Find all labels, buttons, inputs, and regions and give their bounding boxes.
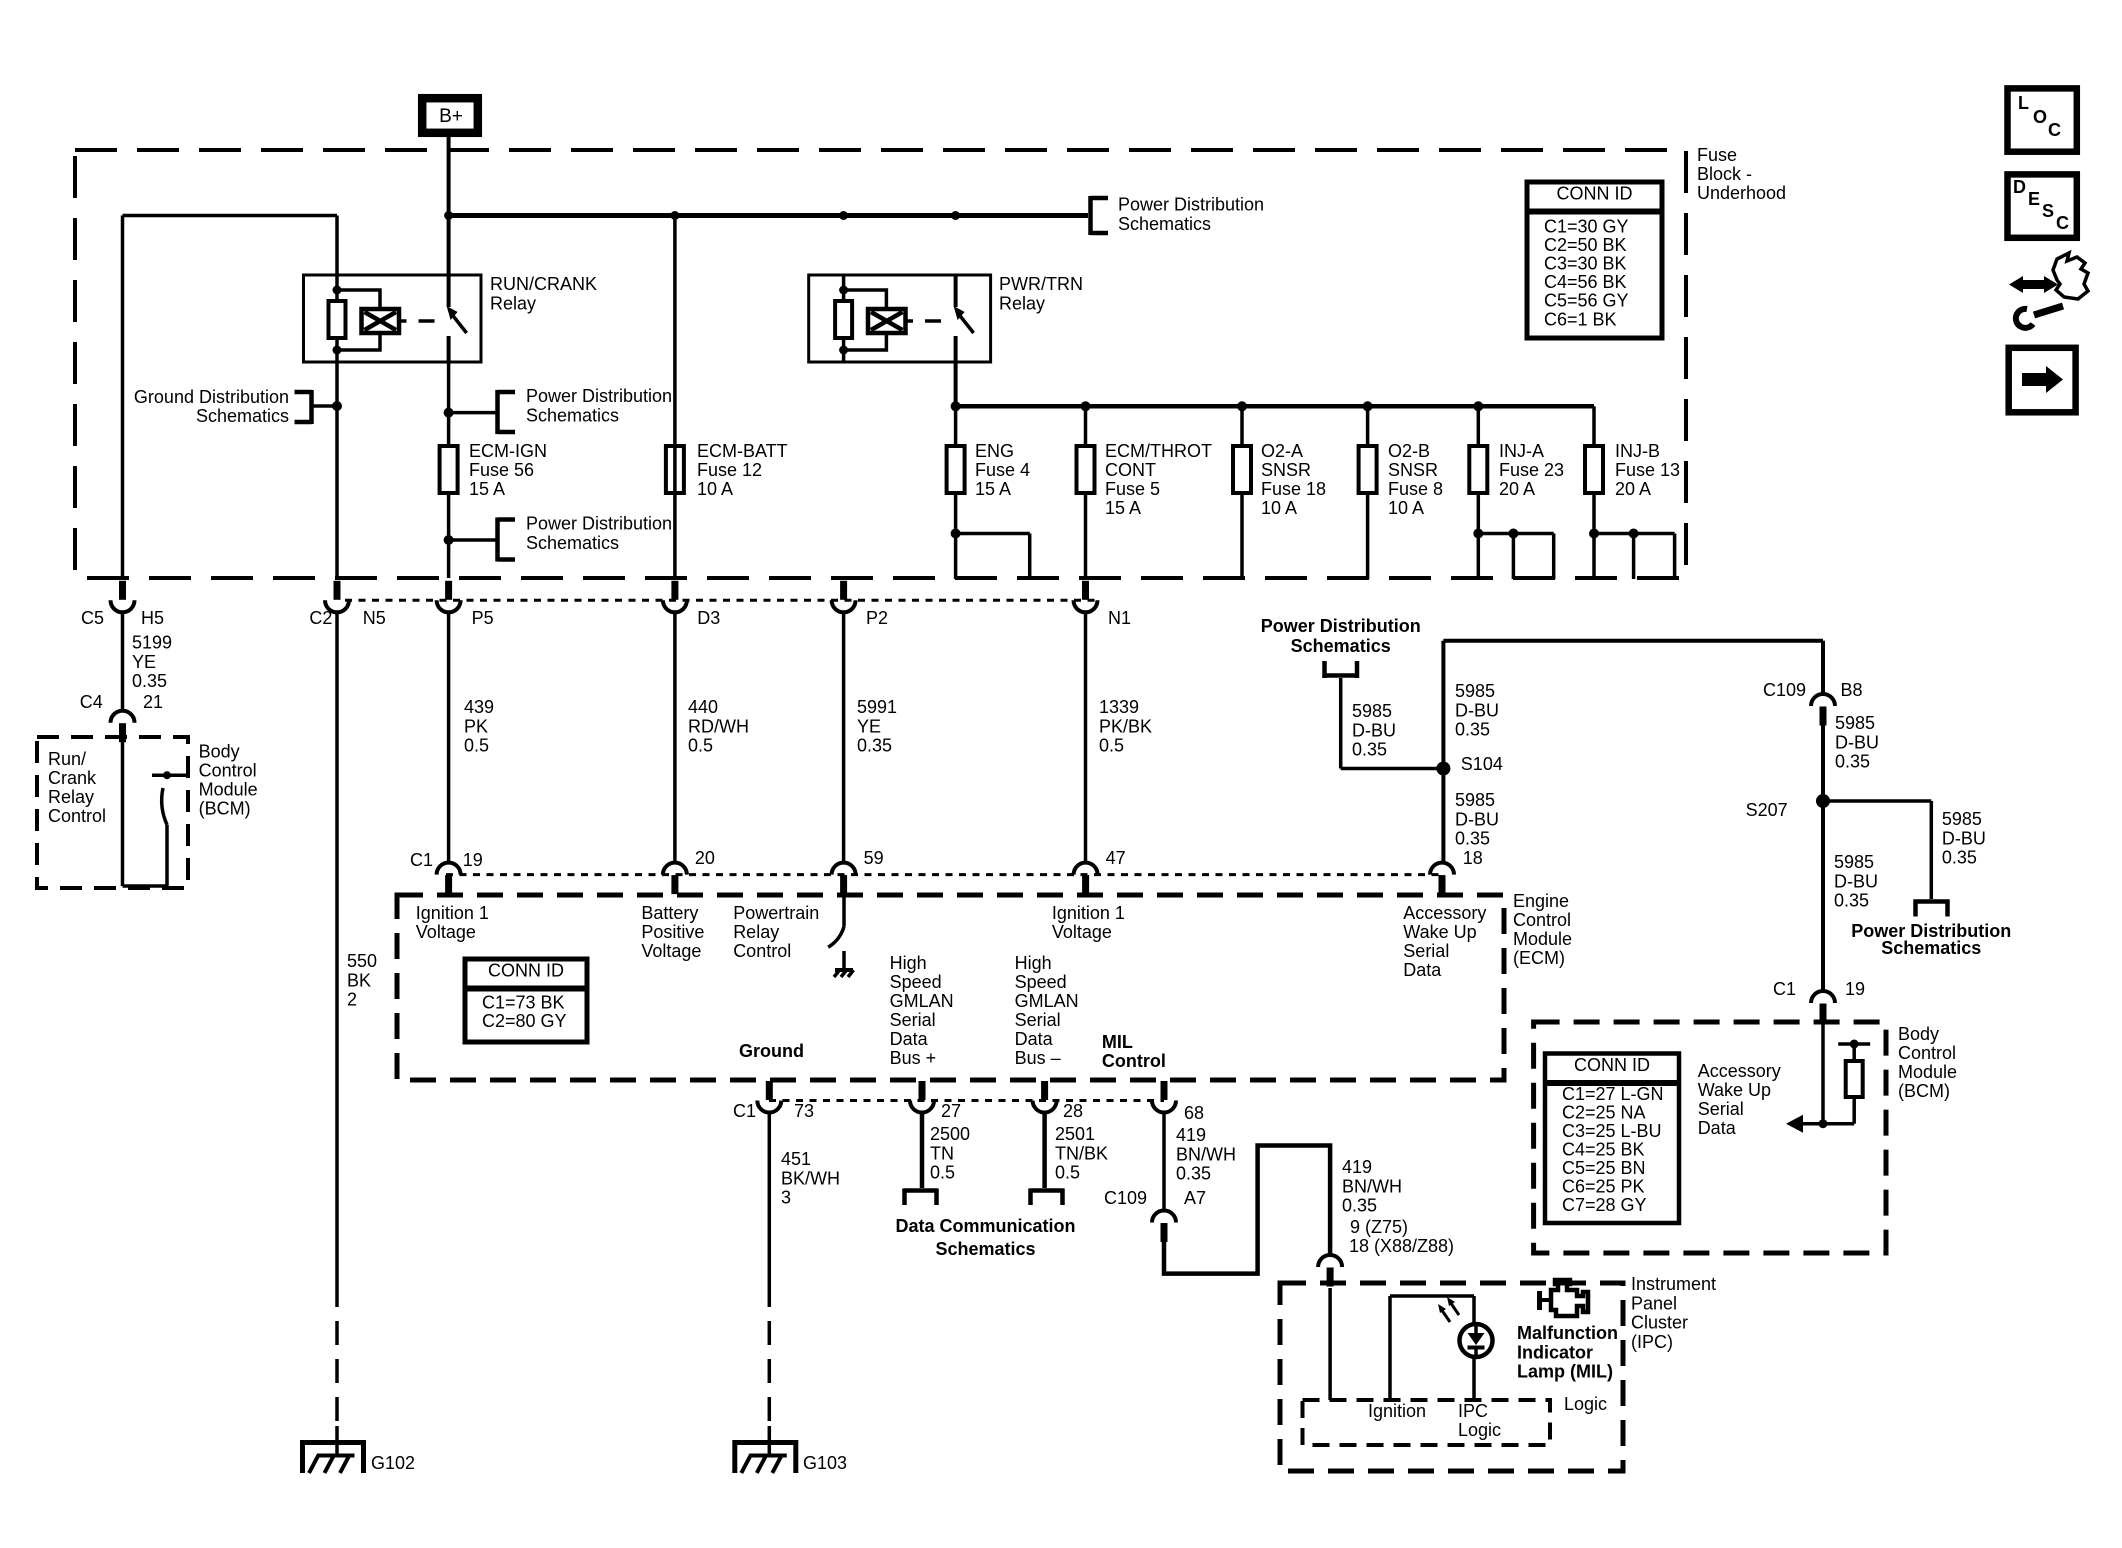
svg-text:Ignition: Ignition [1368, 1401, 1426, 1421]
svg-text:15 A: 15 A [469, 479, 505, 499]
svg-text:L: L [2018, 93, 2029, 113]
svg-text:B8: B8 [1841, 680, 1863, 700]
svg-text:A7: A7 [1184, 1188, 1206, 1208]
svg-text:C2=25 NA: C2=25 NA [1562, 1103, 1646, 1123]
svg-text:C2: C2 [309, 608, 332, 628]
svg-text:2: 2 [347, 990, 357, 1010]
svg-text:28: 28 [1063, 1101, 1083, 1121]
svg-text:Voltage: Voltage [416, 922, 476, 942]
svg-text:Voltage: Voltage [641, 941, 701, 961]
svg-text:Crank: Crank [48, 768, 97, 788]
svg-text:Data: Data [1403, 960, 1442, 980]
svg-text:C109: C109 [1763, 680, 1806, 700]
svg-text:C4=25 BK: C4=25 BK [1562, 1140, 1645, 1160]
svg-text:550: 550 [347, 951, 377, 971]
svg-text:5985: 5985 [1455, 681, 1495, 701]
svg-text:Engine: Engine [1513, 891, 1569, 911]
svg-text:5985: 5985 [1352, 701, 1392, 721]
svg-text:0.35: 0.35 [1834, 891, 1869, 911]
svg-text:0.5: 0.5 [464, 736, 489, 756]
svg-text:Underhood: Underhood [1697, 183, 1786, 203]
svg-text:TN/BK: TN/BK [1055, 1143, 1108, 1163]
svg-text:Indicator: Indicator [1517, 1342, 1593, 1362]
svg-text:Logic: Logic [1458, 1420, 1501, 1440]
svg-text:419: 419 [1342, 1157, 1372, 1177]
svg-text:C4=56 BK: C4=56 BK [1544, 272, 1627, 292]
svg-text:Block -: Block - [1697, 164, 1752, 184]
svg-text:C1: C1 [410, 850, 433, 870]
svg-text:C6=1 BK: C6=1 BK [1544, 309, 1617, 329]
svg-text:Speed: Speed [890, 972, 942, 992]
svg-text:GMLAN: GMLAN [1015, 991, 1079, 1011]
svg-text:G103: G103 [803, 1453, 847, 1473]
svg-text:Data: Data [1698, 1118, 1737, 1138]
svg-text:451: 451 [781, 1149, 811, 1169]
svg-text:Serial: Serial [1403, 941, 1449, 961]
svg-text:ENG: ENG [975, 441, 1014, 461]
svg-text:Accessory: Accessory [1403, 903, 1486, 923]
svg-text:S207: S207 [1746, 800, 1788, 820]
svg-text:Logic: Logic [1564, 1394, 1607, 1414]
svg-text:Battery: Battery [641, 903, 698, 923]
svg-text:Schematics: Schematics [1118, 214, 1211, 234]
svg-text:PWR/TRN: PWR/TRN [999, 274, 1083, 294]
svg-text:Control: Control [199, 761, 257, 781]
svg-text:ECM-IGN: ECM-IGN [469, 441, 547, 461]
svg-text:IPC: IPC [1458, 1401, 1488, 1421]
svg-text:440: 440 [688, 697, 718, 717]
svg-text:N5: N5 [363, 608, 386, 628]
svg-text:Relay: Relay [733, 922, 779, 942]
svg-text:O2-A: O2-A [1261, 441, 1303, 461]
svg-text:Malfunction: Malfunction [1517, 1323, 1618, 1343]
svg-text:5199: 5199 [132, 633, 172, 653]
svg-text:59: 59 [864, 848, 884, 868]
svg-text:Powertrain: Powertrain [733, 903, 819, 923]
svg-text:10 A: 10 A [1261, 498, 1297, 518]
svg-text:Power Distribution: Power Distribution [526, 514, 672, 534]
svg-text:Schematics: Schematics [196, 406, 289, 426]
svg-text:Body: Body [199, 742, 240, 762]
svg-text:Fuse: Fuse [1697, 145, 1737, 165]
svg-text:19: 19 [1845, 979, 1865, 999]
svg-text:Relay: Relay [999, 294, 1045, 314]
svg-text:CONT: CONT [1105, 460, 1156, 480]
svg-text:18: 18 [1463, 848, 1483, 868]
svg-text:RUN/CRANK: RUN/CRANK [490, 274, 597, 294]
svg-text:BN/WH: BN/WH [1176, 1144, 1236, 1164]
svg-text:439: 439 [464, 697, 494, 717]
svg-text:Fuse 5: Fuse 5 [1105, 479, 1160, 499]
svg-text:C1=30 GY: C1=30 GY [1544, 216, 1629, 236]
svg-text:Ignition 1: Ignition 1 [1052, 903, 1125, 923]
svg-text:Control: Control [1102, 1051, 1166, 1071]
svg-text:CONN ID: CONN ID [488, 961, 564, 981]
svg-text:D-BU: D-BU [1942, 828, 1986, 848]
svg-text:Lamp (MIL): Lamp (MIL) [1517, 1362, 1613, 1382]
svg-text:Data Communication: Data Communication [895, 1216, 1075, 1236]
svg-text:27: 27 [941, 1101, 961, 1121]
svg-text:Data: Data [890, 1029, 929, 1049]
svg-text:Power Distribution: Power Distribution [526, 386, 672, 406]
svg-text:D: D [2013, 177, 2026, 197]
svg-text:High: High [890, 953, 927, 973]
svg-text:Power Distribution: Power Distribution [1118, 195, 1264, 215]
svg-text:CONN ID: CONN ID [1574, 1055, 1650, 1075]
svg-text:Schematics: Schematics [935, 1239, 1035, 1259]
svg-text:5991: 5991 [857, 697, 897, 717]
svg-text:Ground: Ground [739, 1041, 804, 1061]
svg-text:20 A: 20 A [1499, 479, 1535, 499]
svg-text:9 (Z75): 9 (Z75) [1350, 1217, 1408, 1237]
svg-text:N1: N1 [1108, 608, 1131, 628]
svg-text:D-BU: D-BU [1834, 871, 1878, 891]
svg-text:Accessory: Accessory [1698, 1061, 1781, 1081]
svg-text:D-BU: D-BU [1455, 809, 1499, 829]
svg-text:INJ-B: INJ-B [1615, 441, 1660, 461]
svg-text:Fuse 23: Fuse 23 [1499, 460, 1564, 480]
svg-text:YE: YE [857, 716, 881, 736]
svg-text:73: 73 [794, 1101, 814, 1121]
svg-text:Schematics: Schematics [526, 533, 619, 553]
svg-text:5985: 5985 [1835, 713, 1875, 733]
svg-text:Power Distribution: Power Distribution [1261, 616, 1421, 636]
svg-text:0.35: 0.35 [1352, 740, 1387, 760]
svg-text:Data: Data [1015, 1029, 1054, 1049]
svg-text:5985: 5985 [1834, 852, 1874, 872]
svg-text:Ground Distribution: Ground Distribution [134, 387, 289, 407]
svg-text:Cluster: Cluster [1631, 1313, 1688, 1333]
svg-text:O2-B: O2-B [1388, 441, 1430, 461]
svg-text:0.5: 0.5 [1055, 1163, 1080, 1183]
svg-text:Bus –: Bus – [1015, 1048, 1061, 1068]
svg-text:BN/WH: BN/WH [1342, 1176, 1402, 1196]
svg-text:O: O [2033, 107, 2047, 127]
svg-text:21: 21 [143, 692, 163, 712]
svg-text:Serial: Serial [1698, 1099, 1744, 1119]
svg-text:H5: H5 [141, 608, 164, 628]
svg-text:C1=73 BK: C1=73 BK [482, 993, 565, 1013]
svg-text:Instrument: Instrument [1631, 1274, 1716, 1294]
svg-text:BK/WH: BK/WH [781, 1168, 840, 1188]
svg-text:C1: C1 [733, 1101, 756, 1121]
svg-text:ECM/THROT: ECM/THROT [1105, 441, 1212, 461]
svg-text:20: 20 [695, 848, 715, 868]
svg-text:0.5: 0.5 [930, 1163, 955, 1183]
svg-text:C1=27 L-GN: C1=27 L-GN [1562, 1084, 1664, 1104]
svg-text:Voltage: Voltage [1052, 922, 1112, 942]
svg-text:20 A: 20 A [1615, 479, 1651, 499]
svg-text:High: High [1015, 953, 1052, 973]
svg-text:SNSR: SNSR [1388, 460, 1438, 480]
svg-text:Module: Module [199, 780, 258, 800]
svg-text:D-BU: D-BU [1455, 700, 1499, 720]
svg-text:Fuse 13: Fuse 13 [1615, 460, 1680, 480]
svg-text:Ignition 1: Ignition 1 [416, 903, 489, 923]
svg-text:0.35: 0.35 [1176, 1164, 1211, 1184]
svg-text:Serial: Serial [1015, 1010, 1061, 1030]
svg-text:0.35: 0.35 [1342, 1196, 1377, 1216]
svg-text:YE: YE [132, 652, 156, 672]
svg-text:0.35: 0.35 [132, 671, 167, 691]
svg-text:Positive: Positive [641, 922, 704, 942]
svg-text:10 A: 10 A [1388, 498, 1424, 518]
svg-text:15 A: 15 A [975, 479, 1011, 499]
svg-text:Control: Control [1898, 1043, 1956, 1063]
svg-text:G102: G102 [371, 1453, 415, 1473]
svg-text:Fuse 4: Fuse 4 [975, 460, 1030, 480]
svg-text:0.35: 0.35 [1942, 848, 1977, 868]
svg-text:Schematics: Schematics [1291, 636, 1391, 656]
svg-text:0.5: 0.5 [688, 736, 713, 756]
svg-text:C2=50 BK: C2=50 BK [1544, 235, 1627, 255]
svg-text:1339: 1339 [1099, 697, 1139, 717]
svg-text:Schematics: Schematics [526, 406, 619, 426]
svg-text:(BCM): (BCM) [1898, 1081, 1950, 1101]
svg-text:CONN ID: CONN ID [1557, 184, 1633, 204]
svg-text:D-BU: D-BU [1352, 720, 1396, 740]
svg-text:47: 47 [1106, 848, 1126, 868]
svg-text:C3=25 L-BU: C3=25 L-BU [1562, 1121, 1662, 1141]
svg-text:ECM-BATT: ECM-BATT [697, 441, 788, 461]
svg-text:Relay: Relay [490, 294, 536, 314]
svg-text:C: C [2056, 213, 2069, 233]
svg-text:Relay: Relay [48, 787, 94, 807]
svg-text:Module: Module [1513, 929, 1572, 949]
svg-text:5985: 5985 [1942, 809, 1982, 829]
svg-text:0.35: 0.35 [857, 736, 892, 756]
svg-text:S: S [2042, 201, 2054, 221]
svg-text:10 A: 10 A [697, 479, 733, 499]
svg-text:Module: Module [1898, 1062, 1957, 1082]
svg-text:0.5: 0.5 [1099, 736, 1124, 756]
svg-text:C6=25 PK: C6=25 PK [1562, 1177, 1645, 1197]
svg-text:Wake Up: Wake Up [1698, 1080, 1771, 1100]
svg-text:INJ-A: INJ-A [1499, 441, 1544, 461]
svg-text:5985: 5985 [1455, 790, 1495, 810]
svg-text:2500: 2500 [930, 1124, 970, 1144]
svg-text:C7=28 GY: C7=28 GY [1562, 1195, 1647, 1215]
svg-text:D-BU: D-BU [1835, 732, 1879, 752]
svg-text:P2: P2 [866, 608, 888, 628]
svg-text:SNSR: SNSR [1261, 460, 1311, 480]
svg-text:MIL: MIL [1102, 1032, 1133, 1052]
svg-text:Serial: Serial [890, 1010, 936, 1030]
svg-text:18 (X88/Z88): 18 (X88/Z88) [1349, 1236, 1454, 1256]
svg-text:GMLAN: GMLAN [890, 991, 954, 1011]
svg-text:B+: B+ [439, 106, 463, 127]
svg-text:19: 19 [463, 850, 483, 870]
svg-text:C109: C109 [1104, 1188, 1147, 1208]
svg-text:C5=25 BN: C5=25 BN [1562, 1158, 1646, 1178]
svg-text:0.35: 0.35 [1455, 829, 1490, 849]
svg-text:Schematics: Schematics [1881, 938, 1981, 958]
svg-text:Speed: Speed [1015, 972, 1067, 992]
svg-text:(ECM): (ECM) [1513, 948, 1565, 968]
svg-text:Fuse 8: Fuse 8 [1388, 479, 1443, 499]
svg-text:Run/: Run/ [48, 749, 86, 769]
svg-text:Fuse 56: Fuse 56 [469, 460, 534, 480]
svg-text:TN: TN [930, 1143, 954, 1163]
svg-text:Control: Control [48, 806, 106, 826]
svg-text:C3=30 BK: C3=30 BK [1544, 254, 1627, 274]
svg-text:0.35: 0.35 [1455, 720, 1490, 740]
svg-text:C5=56 GY: C5=56 GY [1544, 291, 1629, 311]
svg-text:68: 68 [1184, 1103, 1204, 1123]
svg-text:C2=80 GY: C2=80 GY [482, 1011, 567, 1031]
svg-text:Panel: Panel [1631, 1293, 1677, 1313]
svg-text:2501: 2501 [1055, 1124, 1095, 1144]
svg-text:Bus +: Bus + [890, 1048, 937, 1068]
svg-text:C4: C4 [80, 692, 103, 712]
svg-text:Fuse 12: Fuse 12 [697, 460, 762, 480]
svg-text:PK: PK [464, 716, 488, 736]
svg-text:BK: BK [347, 970, 371, 990]
svg-text:419: 419 [1176, 1125, 1206, 1145]
svg-text:Control: Control [1513, 910, 1571, 930]
svg-text:C: C [2048, 120, 2061, 140]
svg-text:0.35: 0.35 [1835, 752, 1870, 772]
svg-text:D3: D3 [697, 608, 720, 628]
svg-text:15 A: 15 A [1105, 498, 1141, 518]
svg-text:Control: Control [733, 941, 791, 961]
svg-text:Body: Body [1898, 1024, 1939, 1044]
svg-text:(BCM): (BCM) [199, 799, 251, 819]
svg-text:RD/WH: RD/WH [688, 716, 749, 736]
svg-text:P5: P5 [472, 608, 494, 628]
svg-text:(IPC): (IPC) [1631, 1332, 1673, 1352]
svg-text:E: E [2028, 189, 2040, 209]
svg-text:C5: C5 [81, 608, 104, 628]
svg-text:C1: C1 [1773, 979, 1796, 999]
svg-text:PK/BK: PK/BK [1099, 716, 1152, 736]
svg-text:Wake Up: Wake Up [1403, 922, 1476, 942]
svg-text:Fuse 18: Fuse 18 [1261, 479, 1326, 499]
svg-text:S104: S104 [1461, 754, 1503, 774]
svg-text:3: 3 [781, 1188, 791, 1208]
